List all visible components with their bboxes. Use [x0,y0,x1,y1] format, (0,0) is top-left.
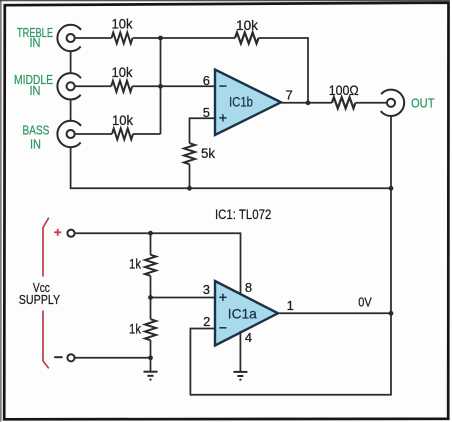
wire: + terminal to pin 8 riser [75,233,241,295]
wire: bass resistor to summing bus [133,133,161,135]
svg-text:IN: IN [30,83,41,98]
wire: treble input to 10k [74,37,111,39]
wire: 5k to ground rail [189,164,191,188]
resistor 1k (top) [145,255,156,276]
junction: ground rail at OUT drop [389,186,394,191]
wire: treble jack to middle jack [70,51,72,73]
svg-text:IC1: TL072: IC1: TL072 [215,207,271,222]
svg-text:8: 8 [245,280,252,295]
svg-text:IC1a: IC1a [228,306,257,322]
svg-text:IN: IN [30,137,41,152]
junction: bus at middle row [158,84,163,89]
wire: midpoint to IC1a pin 3 [151,297,216,299]
svg-text:OUT: OUT [411,96,435,111]
connector: TREBLE IN jack [57,25,83,51]
border frame (decorative) [0,0,450,2]
resistor 10k (bass) [112,129,133,140]
svg-text:1: 1 [287,298,294,313]
wire: 100 ohm to OUT jack [356,102,388,104]
svg-text:4: 4 [245,330,252,345]
junction: divider midpoint [148,295,153,300]
connector: MIDDLE IN jack [57,73,83,99]
junction: 5k at ground rail [187,186,192,191]
wire: middle input to 10k [74,85,111,87]
op-amp IC1b [215,70,281,136]
wire: IC1a output to 0V node [278,312,391,314]
connector: BASS IN jack [57,121,83,147]
svg-text:10k: 10k [112,112,134,128]
wire: middle jack to bass jack [70,99,72,121]
wire: IC1b pin 5 to 5k resistor [190,118,216,143]
wire: bass input to 10k [74,133,112,135]
svg-text:7: 7 [286,88,293,103]
svg-text:10k: 10k [236,17,259,33]
terminal circle + [67,230,74,237]
svg-text:IC1b: IC1b [229,94,253,110]
svg-text:BASS: BASS [22,123,49,138]
junction: supply top at 1k [148,231,153,236]
resistor 1k (bottom) [145,319,156,340]
wire: junction down to 1k [150,233,152,255]
ground: below supply bottom junction [144,358,158,380]
wire: treble resistor to feedback resistor [133,37,235,39]
resistor 10k (treble) [112,33,133,44]
wire: IC1a pin 4 to ground [239,331,241,372]
Vcc supply bracket (red) [43,218,49,369]
plus terminal symbol (red) [54,229,61,236]
svg-text:IN: IN [30,35,41,50]
svg-text:SUPPLY: SUPPLY [19,292,61,307]
svg-text:100Ω: 100Ω [329,82,359,98]
resistor 100 ohm [332,97,356,108]
ground: IC1a pin 4 [233,372,247,380]
connector: OUT jack [378,90,404,116]
terminal circle - [67,354,74,361]
op-amp IC1a [215,281,278,346]
junction: IC1b output node [306,100,311,105]
svg-text:5: 5 [203,105,210,120]
wire: 1k bottom to supply bottom junction [150,340,152,358]
resistor 10k (middle) [111,81,132,92]
wire: IC1b output to 100 ohm resistor [281,102,332,104]
wire: - terminal to bottom junction [75,357,151,359]
svg-text:10k: 10k [112,64,134,80]
resistor 5k [184,143,195,164]
junction: supply bottom [148,355,153,360]
wire: 1k top to 1k bottom through midpoint [150,276,152,319]
svg-text:1k: 1k [129,321,142,337]
svg-text:6: 6 [203,73,210,88]
svg-text:5k: 5k [201,145,216,161]
svg-text:10k: 10k [112,16,134,32]
minus terminal symbol [54,356,62,358]
svg-text:3: 3 [203,282,210,297]
wire: middle resistor to IC1b pin 6 [132,85,215,87]
svg-text:0V: 0V [358,295,372,310]
wire: bass jack down and along ground rail [71,147,391,188]
junction: 0V node [389,311,394,316]
wire: feedback resistor down to IC1b output node [259,38,309,103]
wire: OUT jack down, bottom feedback run, up to IC1a pin 2 [190,116,391,395]
svg-text:2: 2 [203,314,210,329]
svg-text:1k: 1k [129,256,142,272]
junction: bus at treble row [158,36,163,41]
resistor 10k (feedback) [235,33,259,44]
wire: summing bus vertical [160,38,162,134]
